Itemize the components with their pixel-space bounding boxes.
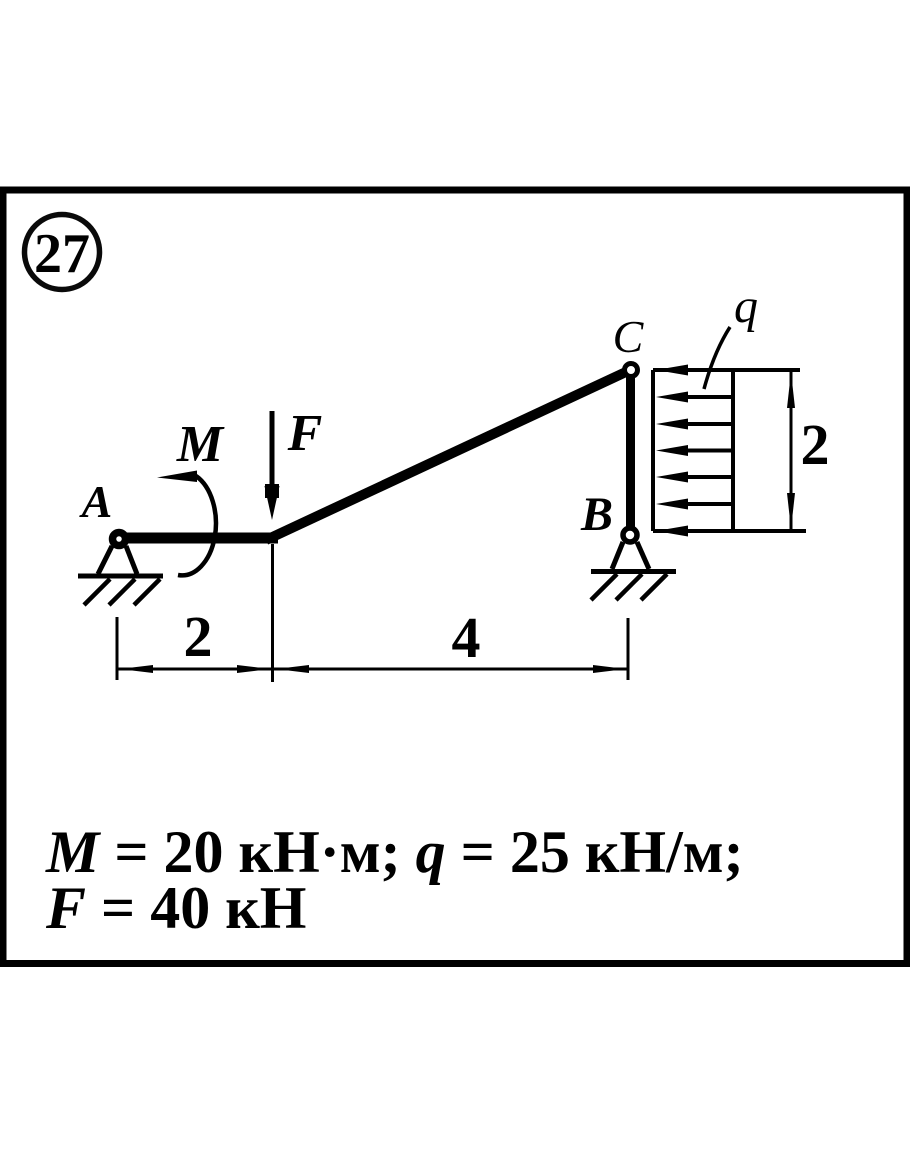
svg-text:M: M (176, 416, 225, 473)
load block inner line (731, 370, 735, 531)
column C to B (vertical member) (626, 374, 635, 532)
dimension line A to bend (117, 665, 272, 673)
load height dimension line (787, 372, 795, 529)
dimension extension tick at B (627, 618, 630, 680)
dimension label 2 (span A-bend) (184, 604, 213, 669)
support B triangle legs (612, 542, 649, 569)
node label A (79, 476, 113, 527)
q leader line (704, 327, 730, 389)
load arrow 5 (656, 472, 733, 483)
problem number circle 27 (25, 215, 100, 290)
load block bottom line (653, 529, 806, 533)
svg-text:A: A (79, 476, 113, 527)
load arrow 6 (656, 499, 733, 510)
dimension label 4 (span bend-B) (452, 605, 481, 670)
beam bend to C (inclined member) (266, 371, 628, 540)
load arrow 2 (656, 392, 733, 403)
force F arrow (265, 411, 280, 520)
dimension extension tick at A (116, 617, 119, 680)
support B hatching (591, 574, 667, 600)
svg-text:q: q (734, 280, 758, 333)
given data text line 1 (45, 819, 744, 885)
svg-text:4: 4 (452, 605, 481, 670)
load arrow 7 (656, 526, 733, 537)
load arrow 4 (656, 445, 733, 456)
node label C (613, 311, 645, 362)
svg-text:2: 2 (801, 412, 830, 477)
svg-text:F: F (287, 405, 323, 462)
load arrow 3 (656, 419, 733, 430)
beam A to bend (horizontal member) (115, 533, 278, 544)
moment M arrowhead (157, 471, 197, 483)
pin hinge at C (625, 364, 638, 377)
svg-text:B: B (580, 488, 613, 541)
node label B (580, 488, 613, 541)
distributed load q label (734, 280, 758, 333)
support A hatching (84, 579, 160, 605)
moment M arc (178, 476, 216, 575)
dimension line bend to B (273, 665, 628, 673)
svg-text:F = 40 кН: F = 40 кН (45, 875, 306, 941)
extension line below bend (271, 544, 274, 682)
load arrow 1 (656, 365, 733, 376)
pin hinge at B (623, 528, 637, 542)
load block top line (653, 368, 800, 372)
load block left line (651, 370, 655, 531)
pin hinge at A (113, 533, 126, 546)
svg-text:27: 27 (34, 223, 90, 285)
load height dimension label 2 (801, 412, 830, 477)
support A triangle legs (98, 546, 137, 574)
svg-text:2: 2 (184, 604, 213, 669)
moment M label (176, 416, 225, 473)
support B base line (591, 569, 676, 574)
svg-text:C: C (613, 311, 645, 362)
force F label (287, 405, 323, 462)
frame border (3, 190, 907, 964)
support A base line (78, 574, 163, 579)
given data text line 2 (45, 875, 306, 941)
